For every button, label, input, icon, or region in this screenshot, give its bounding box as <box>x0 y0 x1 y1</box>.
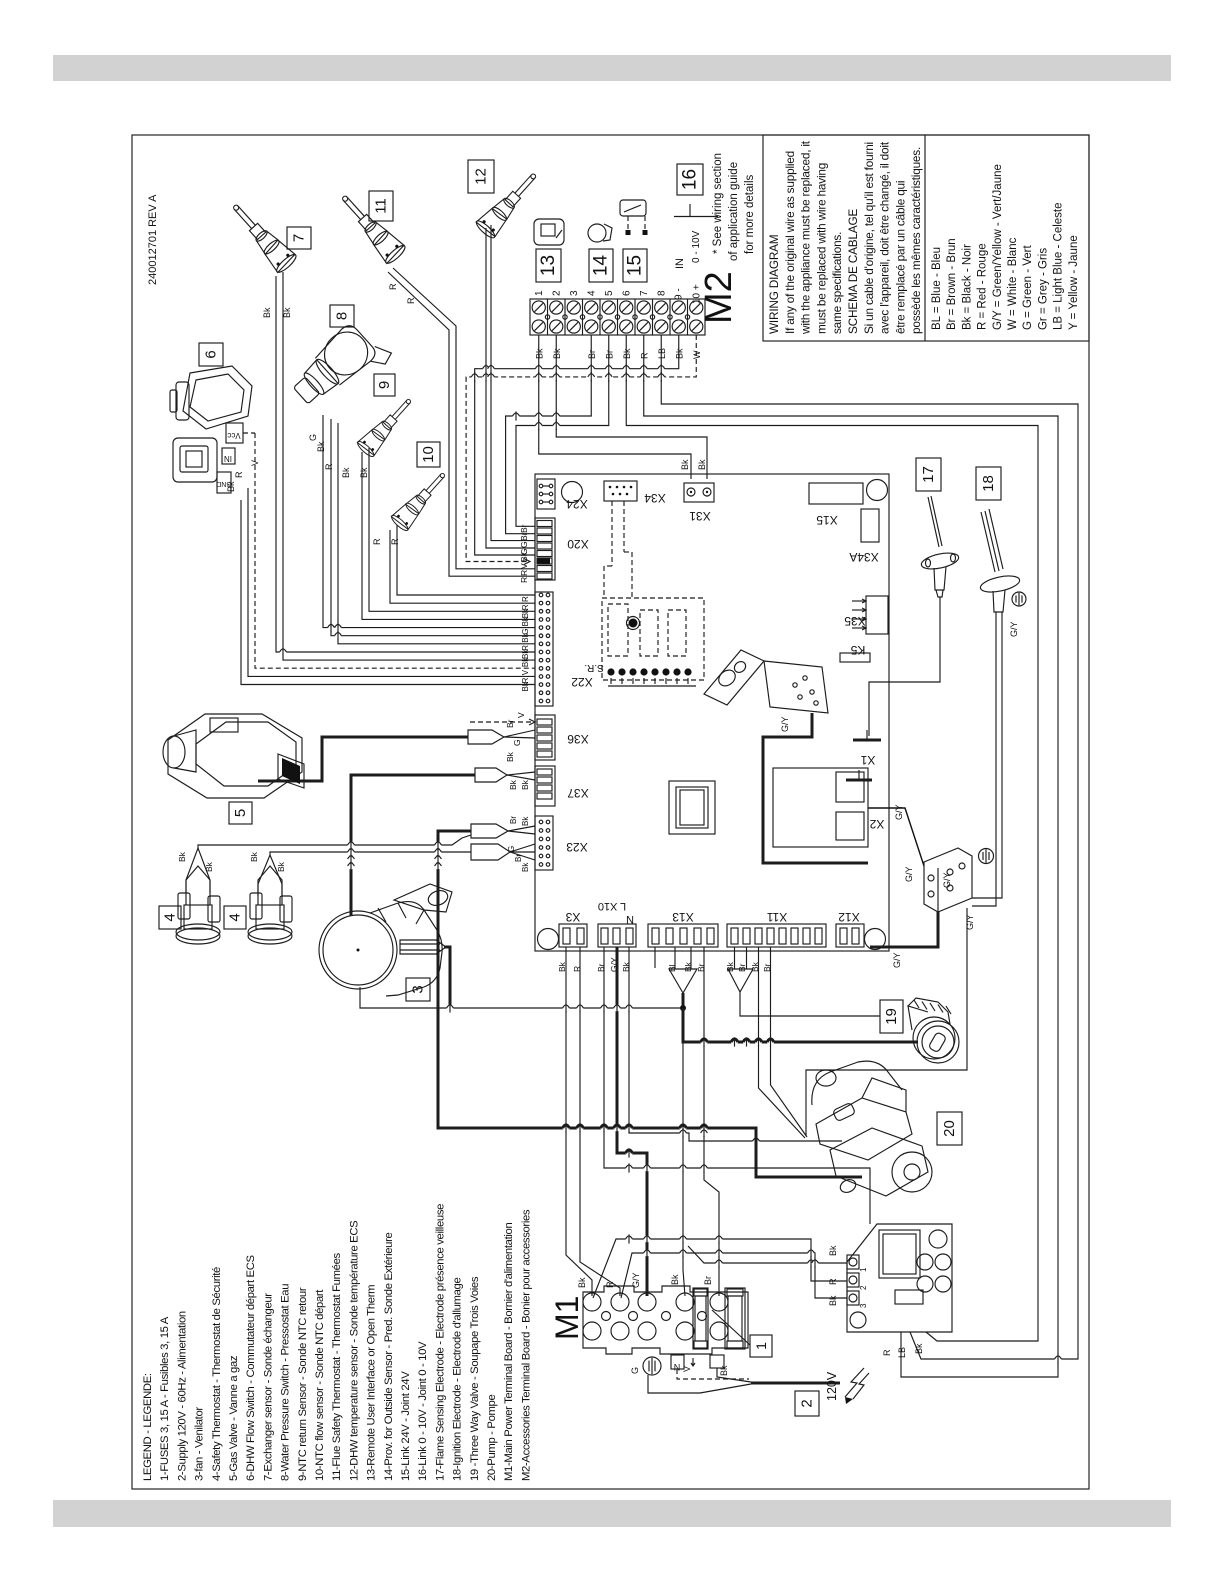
svg-text:Br: Br <box>505 719 515 728</box>
svg-text:4: 4 <box>586 290 597 296</box>
svg-text:Bk: Bk <box>670 1274 680 1285</box>
svg-text:X36: X36 <box>567 732 589 746</box>
svg-text:G: G <box>308 434 318 441</box>
svg-text:N: N <box>626 913 634 925</box>
svg-text:G/Y: G/Y <box>894 804 904 820</box>
svg-text:R: R <box>234 471 244 478</box>
svg-text:G: G <box>512 739 522 746</box>
svg-text:R = Red - Rouge: R = Red - Rouge <box>977 243 989 330</box>
svg-text:X3: X3 <box>565 910 580 924</box>
svg-text:Bk: Bk <box>521 862 530 872</box>
svg-text:X13: X13 <box>672 910 694 924</box>
svg-text:Bk: Bk <box>621 961 631 972</box>
svg-text:0 - 10V: 0 - 10V <box>691 230 702 263</box>
svg-text:Br: Br <box>737 963 747 972</box>
svg-text:G/Y: G/Y <box>1009 621 1019 637</box>
svg-text:X22: X22 <box>571 675 593 689</box>
svg-text:3-fan - Venilator: 3-fan - Venilator <box>194 1407 206 1481</box>
svg-text:6: 6 <box>621 290 632 296</box>
svg-text:X2: X2 <box>869 817 884 831</box>
svg-text:Br: Br <box>519 532 529 541</box>
svg-text:5: 5 <box>604 290 615 296</box>
svg-text:R: R <box>519 570 529 576</box>
svg-text:Bk: Bk <box>521 816 530 826</box>
svg-text:5-Gas Valve - Vanne a gaz: 5-Gas Valve - Vanne a gaz <box>228 1355 240 1481</box>
svg-text:1: 1 <box>534 290 545 296</box>
svg-text:8: 8 <box>334 312 351 320</box>
svg-text:R: R <box>828 1278 838 1285</box>
svg-text:R: R <box>324 463 334 470</box>
svg-text:G/Y: G/Y <box>780 716 790 732</box>
svg-text:S.R.: S.R. <box>584 662 603 673</box>
svg-text:2-Supply 120V - 60Hz - Aliment: 2-Supply 120V - 60Hz - Alimentation <box>176 1311 188 1481</box>
svg-text:R: R <box>406 297 416 304</box>
svg-text:X20: X20 <box>567 537 589 551</box>
svg-text:must be replaced with wire hav: must be replaced with wire having <box>814 163 828 334</box>
svg-text:Bk: Bk <box>725 961 735 972</box>
svg-text:for more details: for more details <box>744 174 756 254</box>
svg-text:8: 8 <box>656 290 667 296</box>
svg-text:4: 4 <box>227 913 244 921</box>
svg-text:4: 4 <box>162 913 179 921</box>
svg-text:X1: X1 <box>860 753 875 767</box>
svg-text:Bk: Bk <box>828 1245 838 1256</box>
svg-text:Bk: Bk <box>519 551 529 562</box>
svg-text:Bk: Bk <box>521 616 530 626</box>
svg-text:Si un cable d'origine, tel qu': Si un cable d'origine, tel qu'il est fou… <box>862 142 876 334</box>
svg-text:15: 15 <box>625 255 646 276</box>
svg-text:X23: X23 <box>566 840 588 854</box>
svg-text:10-NTC flow sensor - Sonde NTC: 10-NTC flow sensor - Sonde NTC départ <box>314 1289 326 1481</box>
svg-text:Bk: Bk <box>359 467 369 478</box>
svg-text:Bk: Bk <box>697 459 707 470</box>
svg-text:240012701 REV A: 240012701 REV A <box>147 194 159 285</box>
svg-text:Bk: Bk <box>204 861 214 872</box>
svg-text:R: R <box>882 1349 892 1356</box>
svg-text:R: R <box>521 596 530 602</box>
svg-text:15-Link 24V - Joint 24V: 15-Link 24V - Joint 24V <box>400 1371 412 1481</box>
svg-text:V: V <box>682 1366 692 1372</box>
svg-text:G: G <box>507 846 516 852</box>
svg-text:18-Ignition Electrode - Electr: 18-Ignition Electrode - Electrode d'allu… <box>452 1278 464 1481</box>
svg-text:8-Water Pressure Switch - Pres: 8-Water Pressure Switch - Pressostat Eau <box>280 1284 292 1481</box>
svg-text:Vcc: Vcc <box>227 431 240 440</box>
svg-text:X12: X12 <box>838 910 860 924</box>
svg-text:Br = Brown - Brun: Br = Brown - Brun <box>946 238 958 330</box>
svg-text:20: 20 <box>941 1120 958 1137</box>
svg-text:3: 3 <box>410 985 427 993</box>
svg-text:Bk: Bk <box>577 1277 587 1288</box>
svg-text:X15: X15 <box>816 513 838 527</box>
svg-text:V: V <box>250 460 260 466</box>
svg-text:Bk: Bk <box>520 779 530 790</box>
svg-text:G/Y: G/Y <box>892 952 902 968</box>
svg-text:Bk: Bk <box>680 459 690 470</box>
svg-text:G/Y: G/Y <box>609 957 619 972</box>
svg-text:If any of the original wire as: If any of the original wire as supplied <box>783 151 797 334</box>
svg-text:X37: X37 <box>567 786 589 800</box>
svg-text:R: R <box>372 538 382 545</box>
svg-text:4-Safety Thermostat - Thermost: 4-Safety Thermostat - Thermostat de Sécu… <box>211 1267 223 1481</box>
svg-text:BL = Blue - Bleu: BL = Blue - Bleu <box>931 247 943 330</box>
svg-text:M1: M1 <box>549 1296 585 1340</box>
svg-text:LB = Light Blue - Celeste: LB = Light Blue - Celeste <box>1053 202 1065 330</box>
svg-text:G: G <box>519 541 529 548</box>
svg-text:IN: IN <box>674 258 686 269</box>
svg-text:19 -Three Way Valve - Soupape: 19 -Three Way Valve - Soupape Trois Voie… <box>469 1276 481 1481</box>
svg-text:G/Y: G/Y <box>965 914 975 930</box>
svg-text:K5: K5 <box>850 643 865 657</box>
svg-text:R: R <box>572 966 582 972</box>
svg-text:G/Y: G/Y <box>904 866 914 882</box>
svg-text:of application guide: of application guide <box>728 162 740 261</box>
svg-text:WIRING DIAGRAM: WIRING DIAGRAM <box>767 235 781 334</box>
svg-text:G/Y: G/Y <box>631 1272 641 1288</box>
svg-text:X35: X35 <box>844 614 866 628</box>
svg-text:Br: Br <box>703 1276 713 1285</box>
svg-text:Br: Br <box>596 963 606 972</box>
svg-text:V: V <box>516 712 526 718</box>
svg-text:Bk: Bk <box>282 307 292 318</box>
svg-text:Bk: Bk <box>521 608 530 618</box>
svg-text:X34A: X34A <box>849 550 878 564</box>
svg-text:V: V <box>521 669 530 675</box>
svg-text:1: 1 <box>753 1342 769 1350</box>
svg-text:Bk: Bk <box>316 441 326 452</box>
svg-text:9: 9 <box>376 381 393 389</box>
svg-text:Bk: Bk <box>557 961 567 972</box>
svg-text:16: 16 <box>680 169 701 190</box>
svg-text:avec l'appareil, doit être cha: avec l'appareil, doit être changé, il do… <box>878 141 892 334</box>
svg-text:10: 10 <box>420 446 437 463</box>
svg-text:G/Y: G/Y <box>942 872 952 888</box>
svg-text:G/Y = Green/Yellow - Vert/Jaun: G/Y = Green/Yellow - Vert/Jaune <box>992 164 1004 330</box>
svg-text:12: 12 <box>473 168 490 185</box>
svg-text:être remplacé par un câble qui: être remplacé par un câble qui <box>893 181 907 334</box>
svg-text:R: R <box>519 577 529 583</box>
svg-text:Br: Br <box>509 816 518 824</box>
svg-text:G = Green - Vert: G = Green - Vert <box>1022 245 1034 330</box>
svg-text:X31: X31 <box>689 509 711 523</box>
svg-text:Bl: Bl <box>667 964 677 972</box>
svg-text:Bk: Bk <box>226 481 236 492</box>
svg-text:Bk: Bk <box>341 467 351 478</box>
svg-text:V: V <box>519 563 529 569</box>
svg-text:Bk = Black - Noir: Bk = Black - Noir <box>961 244 973 330</box>
svg-text:1-FUSES 3, 15 A - Fusibles 3,: 1-FUSES 3, 15 A - Fusibles 3, 15 A <box>159 1316 171 1481</box>
svg-text:X11: X11 <box>766 910 787 924</box>
svg-text:17-Flame Sensing Electrode - E: 17-Flame Sensing Electrode - Electrode p… <box>434 1204 446 1481</box>
svg-text:Br: Br <box>762 963 772 972</box>
svg-text:R: R <box>388 283 398 290</box>
svg-text:6: 6 <box>203 350 220 358</box>
svg-text:13: 13 <box>538 255 559 276</box>
svg-text:11: 11 <box>373 198 390 214</box>
svg-text:R: R <box>605 1281 615 1288</box>
svg-text:Bk: Bk <box>262 307 272 318</box>
svg-text:14-Prov. for Outside Sensor -: 14-Prov. for Outside Sensor - Pred. Sond… <box>383 1232 395 1481</box>
svg-text:X34: X34 <box>644 491 666 505</box>
svg-text:17: 17 <box>920 466 937 483</box>
svg-text:M1-Main Power Terminal Board -: M1-Main Power Terminal Board - Bornier d… <box>503 1223 515 1481</box>
svg-text:LEGEND - LEGENDE:: LEGEND - LEGENDE: <box>142 1373 154 1481</box>
svg-text:7: 7 <box>291 234 308 242</box>
svg-text:* See wiring section: * See wiring section <box>712 153 724 254</box>
svg-text:2: 2 <box>799 1399 816 1407</box>
svg-text:Br: Br <box>519 524 529 533</box>
svg-text:Bk: Bk <box>521 649 530 659</box>
svg-text:Bk: Bk <box>719 1365 729 1376</box>
svg-text:Bk: Bk <box>750 961 760 972</box>
svg-text:possède les mêmes caractéristi: possède les mêmes caractéristiques. <box>909 147 923 334</box>
svg-text:9-NTC return Sensor - Sonde NT: 9-NTC return Sensor - Sonde NTC retour <box>297 1287 309 1481</box>
svg-text:3: 3 <box>569 290 580 296</box>
svg-text:Bk: Bk <box>505 751 515 762</box>
svg-text:Bk: Bk <box>828 1295 838 1306</box>
svg-text:14: 14 <box>591 255 612 277</box>
svg-text:Br: Br <box>514 854 523 862</box>
svg-text:6-DHW Flow Switch - Commutateu: 6-DHW Flow Switch - Commutateur départ E… <box>245 1254 257 1481</box>
svg-text:R: R <box>390 538 400 545</box>
svg-text:SCHEMA DE CABLAGE: SCHEMA DE CABLAGE <box>846 209 860 334</box>
svg-text:Gr = Grey - Gris: Gr = Grey - Gris <box>1037 248 1049 330</box>
svg-text:13-Remote User Interface or Op: 13-Remote User Interface or Open Therm <box>366 1285 378 1481</box>
svg-text:Bk: Bk <box>521 632 530 642</box>
svg-text:1: 1 <box>859 1267 868 1272</box>
svg-text:X24: X24 <box>566 497 588 511</box>
svg-text:Bk: Bk <box>521 681 530 691</box>
svg-text:9 -: 9 - <box>673 288 684 300</box>
svg-text:Bk: Bk <box>683 961 693 972</box>
svg-text:Bk: Bk <box>177 851 187 862</box>
svg-text:Bk: Bk <box>276 861 286 872</box>
svg-text:Bk: Bk <box>521 657 530 667</box>
svg-text:20-Pump - Pompe: 20-Pump - Pompe <box>486 1395 498 1481</box>
svg-text:7: 7 <box>639 290 650 296</box>
svg-text:Bk: Bk <box>914 1343 924 1354</box>
svg-text:Br: Br <box>696 963 706 972</box>
svg-text:7-Exchanger sensor - Sonde éch: 7-Exchanger sensor - Sonde échangeur <box>262 1293 274 1481</box>
svg-text:with the appliance must be rep: with the appliance must be replaced, it <box>799 140 813 335</box>
svg-text:11-Flue Safety Thermostat - Th: 11-Flue Safety Thermostat - Thermostat F… <box>331 1252 343 1481</box>
svg-text:5: 5 <box>232 809 249 817</box>
svg-text:Bk: Bk <box>249 851 259 862</box>
svg-text:19: 19 <box>883 1008 900 1025</box>
svg-text:12-DHW temperature sensor - So: 12-DHW temperature sensor - Sonde tempér… <box>348 1220 360 1481</box>
svg-text:2: 2 <box>859 1285 868 1290</box>
svg-text:16-Link 0 - 10V - Joint 0 - 10: 16-Link 0 - 10V - Joint 0 - 10V <box>417 1341 429 1481</box>
svg-text:W = White - Blanc: W = White - Blanc <box>1007 237 1019 330</box>
svg-text:Y = Yellow - Jaune: Y = Yellow - Jaune <box>1068 235 1080 330</box>
svg-text:LB: LB <box>897 1347 907 1358</box>
svg-text:Bk: Bk <box>508 779 518 790</box>
svg-text:L X10: L X10 <box>598 900 626 912</box>
svg-text:M2-Accessories Terminal Board: M2-Accessories Terminal Board - Bonier p… <box>520 1209 532 1481</box>
svg-text:18: 18 <box>980 475 997 492</box>
svg-text:120V: 120V <box>825 1371 839 1401</box>
svg-text:3: 3 <box>859 1303 868 1308</box>
svg-text:M2: M2 <box>698 271 740 324</box>
svg-text:G: G <box>630 1367 640 1374</box>
svg-text:same specifications.: same specifications. <box>830 232 844 334</box>
svg-text:IN: IN <box>224 454 232 463</box>
svg-text:2: 2 <box>551 290 562 296</box>
